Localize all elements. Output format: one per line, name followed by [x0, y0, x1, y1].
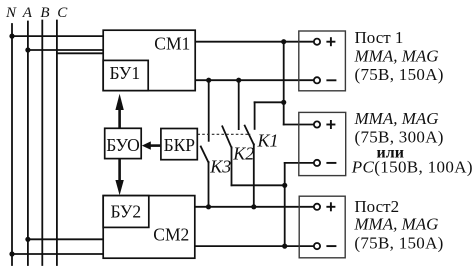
svg-text:БУ1: БУ1 [110, 63, 141, 83]
svg-text:(75В, 150А): (75В, 150А) [354, 233, 443, 252]
svg-text:СМ2: СМ2 [153, 225, 189, 245]
svg-text:ММА, МАG: ММА, МАG [353, 215, 438, 234]
svg-text:B: B [40, 5, 49, 21]
svg-text:К2: К2 [232, 144, 254, 164]
svg-text:N: N [5, 5, 17, 21]
svg-text:ММА, МАG: ММА, МАG [354, 109, 439, 128]
svg-text:ММА, МАG: ММА, МАG [354, 47, 439, 66]
svg-text:(75В, 150А): (75В, 150А) [355, 65, 444, 84]
svg-text:C: C [57, 5, 68, 21]
svg-text:Пост2: Пост2 [354, 197, 399, 216]
svg-text:К3: К3 [209, 156, 231, 176]
svg-text:БКР: БКР [164, 135, 196, 155]
svg-text:БУ2: БУ2 [111, 202, 142, 222]
svg-text:РС(150В, 100А): РС(150В, 100А) [351, 158, 473, 177]
svg-text:Пост 1: Пост 1 [355, 28, 404, 47]
svg-text:БУО: БУО [106, 135, 140, 155]
svg-text:СМ1: СМ1 [154, 33, 190, 53]
svg-text:A: A [22, 5, 33, 21]
svg-text:К1: К1 [257, 130, 279, 150]
